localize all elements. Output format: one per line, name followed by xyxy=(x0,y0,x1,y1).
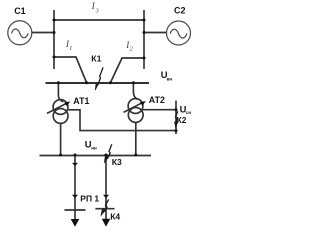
node A left generator bus xyxy=(53,10,55,69)
label I2 xyxy=(125,40,133,52)
feeder RP1 line xyxy=(74,155,76,220)
autotransformer AT2 windings xyxy=(128,99,143,123)
wire AT1 LV lead xyxy=(60,123,62,155)
wire branch I1 xyxy=(54,57,87,83)
svg-text:2: 2 xyxy=(130,46,133,52)
autotransformer AT2 tap arrow xyxy=(124,103,143,113)
generator C1 xyxy=(8,21,32,45)
svg-text:C2: C2 xyxy=(174,5,186,15)
load arrowhead K4 feeder xyxy=(102,219,111,227)
svg-text:АТ1: АТ1 xyxy=(73,96,89,106)
svg-text:К2: К2 xyxy=(177,115,187,125)
svg-text:нн: нн xyxy=(91,145,97,150)
flow arrowhead RP1 lower xyxy=(72,195,78,199)
svg-text:C1: C1 xyxy=(14,6,26,16)
flow arrowhead K4 feeder xyxy=(103,195,109,199)
AT2 tap arrowhead xyxy=(140,101,146,106)
junction top bus right xyxy=(143,19,146,22)
autotransformer AT1 windings xyxy=(53,100,68,124)
junction AT2 MV at Usn xyxy=(175,108,178,111)
svg-text:1: 1 xyxy=(69,46,72,52)
bus Uvn xyxy=(46,82,150,84)
label I1 xyxy=(65,39,72,52)
junction AT1 at Uvn xyxy=(57,81,60,84)
junction C2 lead xyxy=(143,31,146,34)
svg-text:К1: К1 xyxy=(91,53,101,63)
junction AT1 MV at Usn xyxy=(175,129,178,132)
wire C2 lead xyxy=(144,32,166,34)
AT1 tap arrowhead xyxy=(64,101,70,106)
K4 busbar xyxy=(95,208,114,210)
wire branch I2 xyxy=(111,58,145,83)
junction AT2 at Unn xyxy=(134,154,137,157)
node Usn vertical xyxy=(175,101,177,135)
wire AT2 MV branch xyxy=(142,109,176,111)
junction branch I1 xyxy=(53,56,56,59)
label Usn xyxy=(180,104,192,115)
junction branch I2 xyxy=(143,57,146,60)
feeder K4 line xyxy=(105,155,107,220)
svg-text:3: 3 xyxy=(95,9,99,15)
wire C1 lead xyxy=(32,32,54,34)
svg-text:РП 1: РП 1 xyxy=(80,194,99,204)
fault K4 arrow xyxy=(101,199,109,215)
node B right generator bus xyxy=(143,10,145,69)
svg-text:сн: сн xyxy=(186,110,192,115)
svg-text:вн: вн xyxy=(167,76,173,81)
wire AT1 MV branch xyxy=(68,110,176,131)
label Uvn xyxy=(161,69,173,81)
junction top bus left xyxy=(53,19,56,22)
junction RP1 feeder at Unn xyxy=(74,154,77,157)
wire AT2 LV lead xyxy=(135,122,137,155)
fault K3 arrow xyxy=(104,144,112,162)
bus Unn xyxy=(40,155,152,157)
junction AT1 at Unn xyxy=(59,154,62,157)
generator C2 xyxy=(167,21,191,45)
autotransformer AT1 tap arrow xyxy=(47,103,67,113)
junction AT2 at Uvn xyxy=(132,81,135,84)
label I3 xyxy=(91,1,99,14)
svg-text:К4: К4 xyxy=(110,211,120,221)
flow arrowhead RP1 upper xyxy=(72,163,78,166)
RP1 busbar xyxy=(65,209,86,211)
junction K3 feeder at Unn xyxy=(105,154,108,157)
load arrowhead RP1 xyxy=(71,219,80,227)
autotransformer AT1 HV lead xyxy=(58,83,63,102)
junction I1 at Uvn xyxy=(85,81,88,84)
fault K1 arrow xyxy=(95,67,103,90)
fault K2 arrow xyxy=(175,111,178,128)
junction I2 at Uvn xyxy=(109,81,112,84)
svg-text:АТ2: АТ2 xyxy=(149,95,165,105)
label Unn xyxy=(85,139,97,151)
wire tie line I3 xyxy=(54,19,144,21)
svg-text:К3: К3 xyxy=(112,157,122,167)
junction C1 lead xyxy=(53,31,56,34)
autotransformer AT2 HV lead xyxy=(133,83,137,99)
